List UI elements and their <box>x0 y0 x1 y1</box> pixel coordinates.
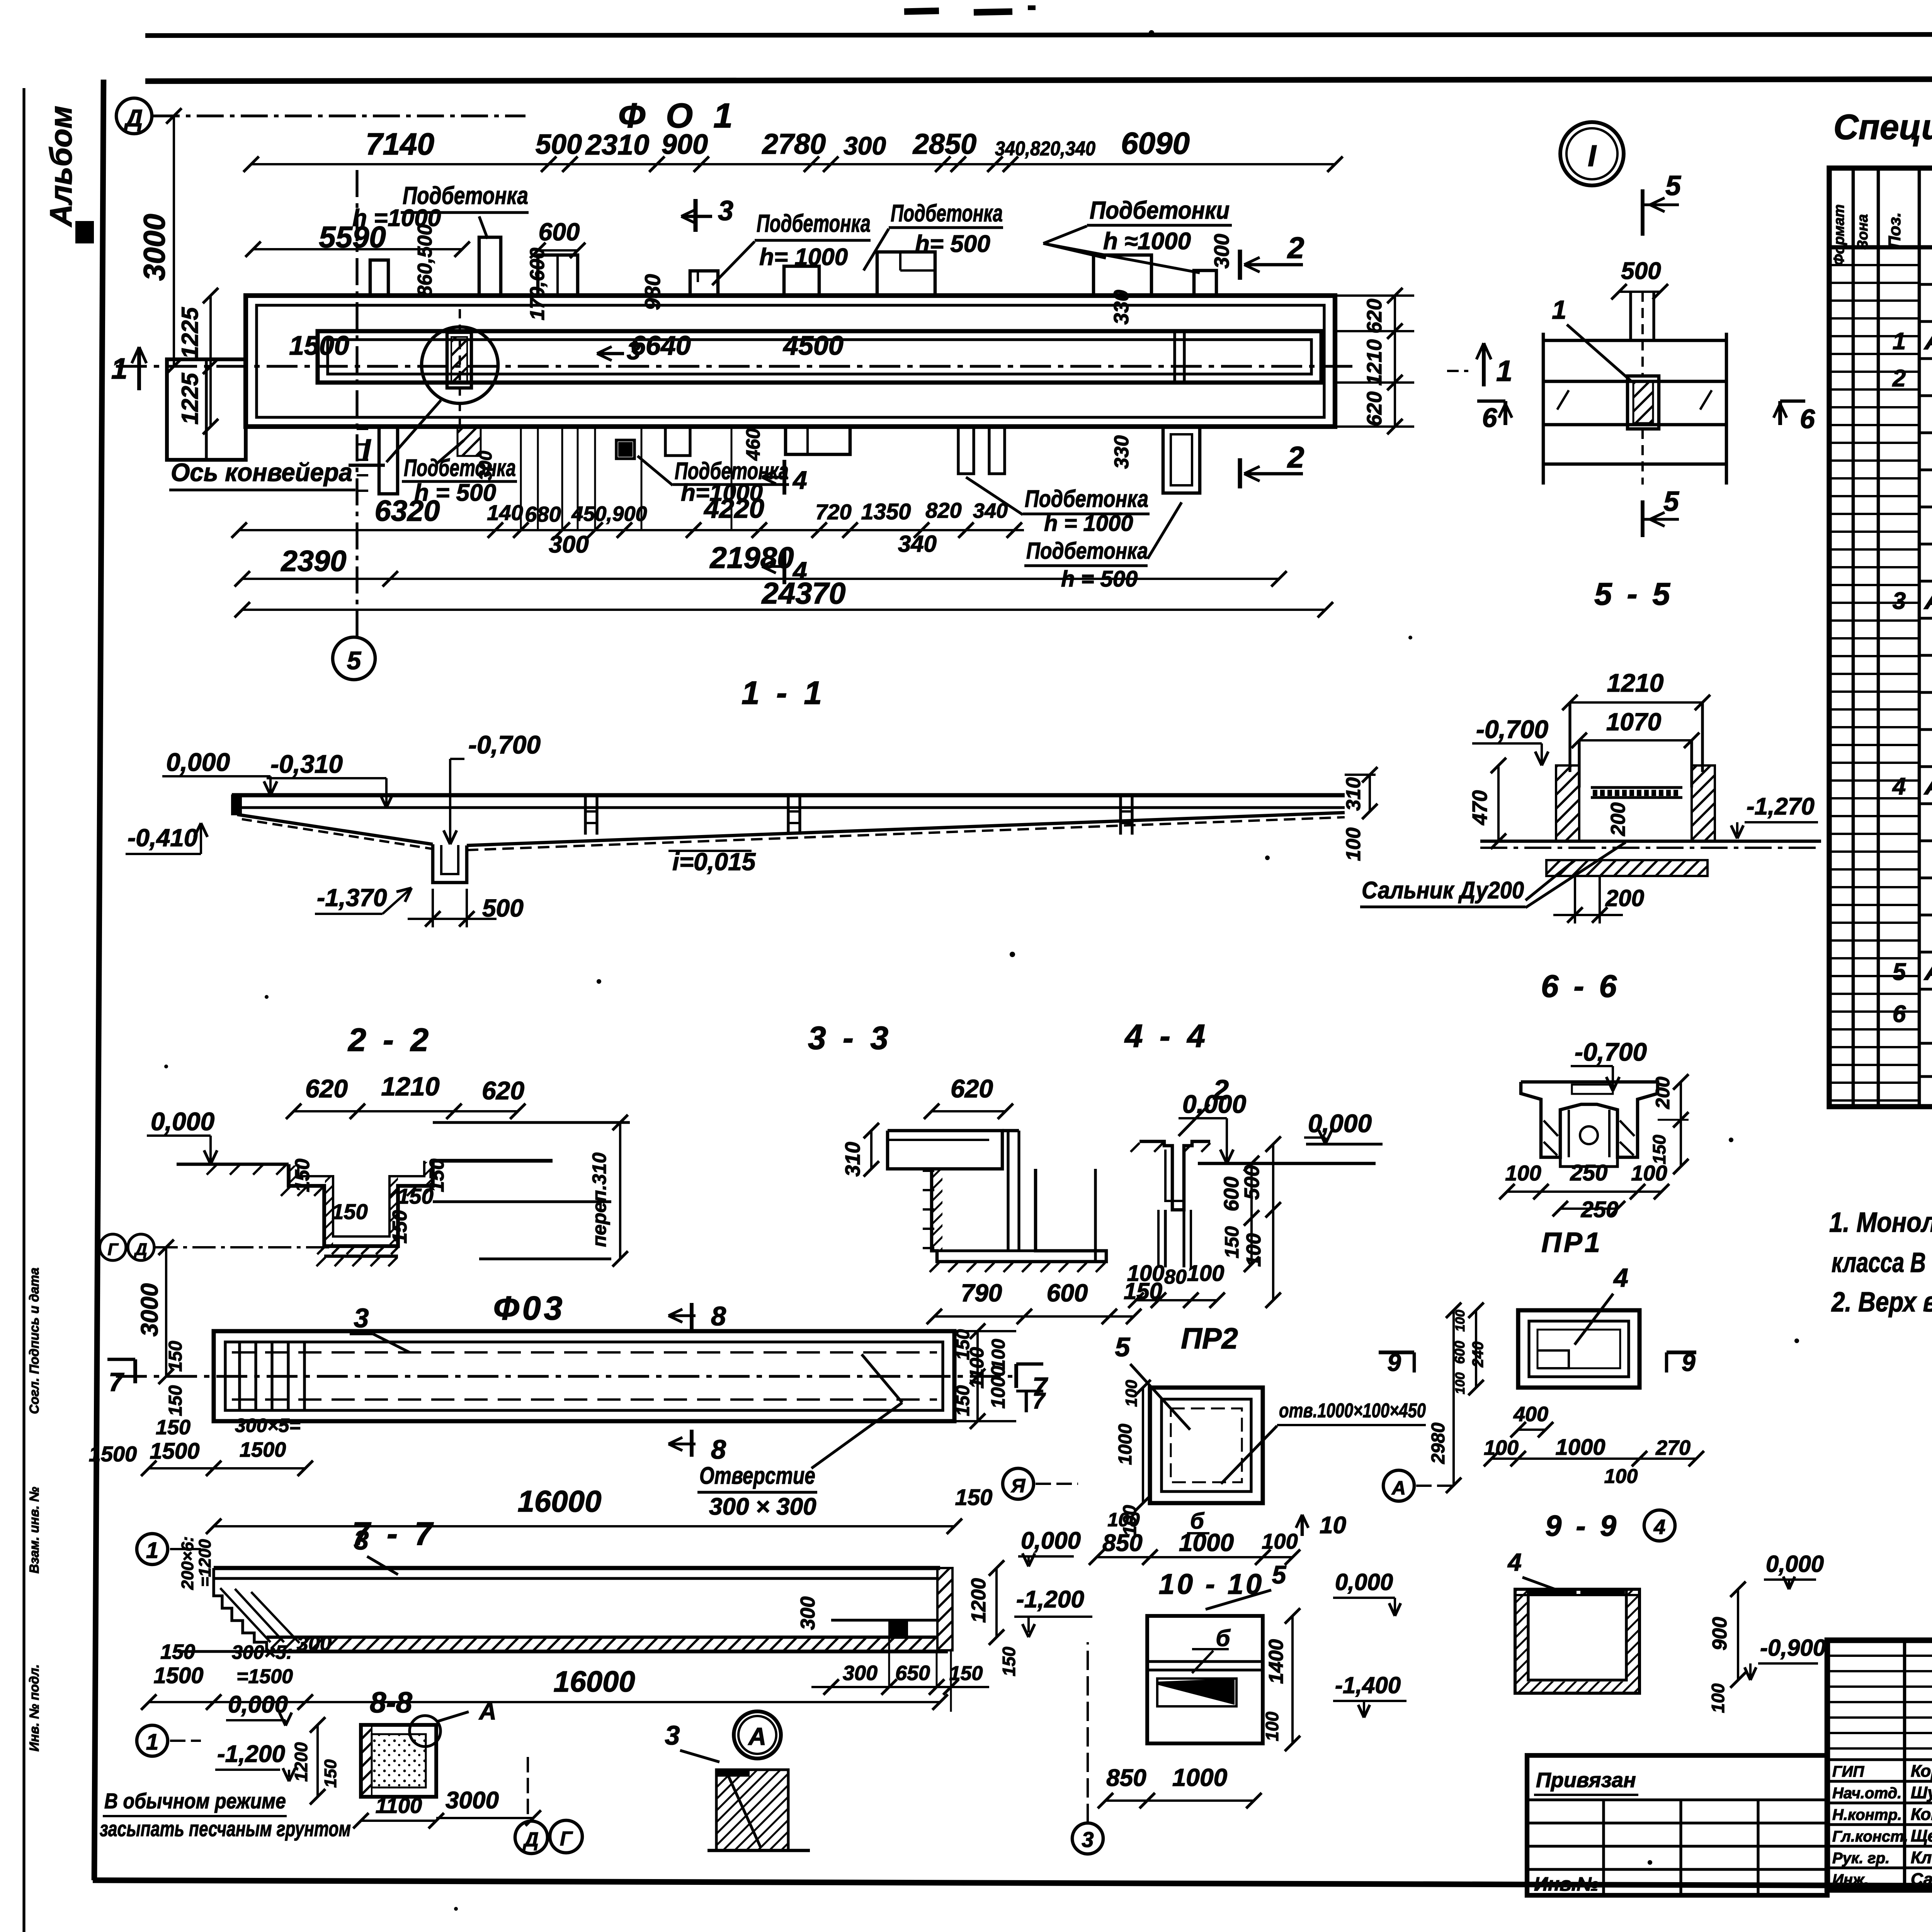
svg-text:150: 150 <box>165 1341 186 1372</box>
5-5 side verticals <box>1542 333 1545 485</box>
spec table header bottom line <box>1829 245 1932 250</box>
svg-text:150: 150 <box>955 1485 993 1510</box>
svg-text:Поз.: Поз. <box>1885 212 1904 248</box>
svg-text:850: 850 <box>1106 1765 1146 1791</box>
6-6 dim 1070 <box>1579 739 1692 742</box>
svg-text:6090: 6090 <box>1121 126 1190 160</box>
svg-text:5: 5 <box>1115 1332 1131 1362</box>
spec table narrow column grid <box>1829 264 1919 266</box>
leader LG2 <box>638 456 673 485</box>
leader LG3 <box>966 477 1023 515</box>
leader L1 <box>712 241 755 285</box>
PR1 section top slab <box>1521 1082 1658 1157</box>
svg-text:засыпать песчаным грунтом: засыпать песчаным грунтом <box>100 1816 351 1841</box>
10-10 bottom dims <box>1105 1799 1254 1802</box>
title block outer box <box>1827 1640 1932 1890</box>
axis G D circles <box>100 1234 126 1260</box>
leader L1b <box>864 229 889 270</box>
vdim right s22 <box>619 1122 621 1259</box>
section 4 marker upper <box>782 460 786 495</box>
svg-text:1 - 1: 1 - 1 <box>742 675 826 711</box>
section 2-2 ground left <box>177 1163 289 1166</box>
svg-text:Альбом: Альбом <box>44 106 78 228</box>
svg-text:7: 7 <box>1032 1388 1046 1413</box>
svg-text:980: 980 <box>640 274 665 310</box>
svg-text:150: 150 <box>389 1210 411 1244</box>
PR1 circle salnik <box>1580 1126 1598 1144</box>
svg-text:h= 500: h= 500 <box>915 231 990 257</box>
plan slot inner <box>328 340 1311 374</box>
PR2 square inner <box>1162 1399 1251 1492</box>
below-band H1 H2 <box>958 427 974 474</box>
FO3 center axis <box>116 1375 1012 1378</box>
5-5 dashed axis segments <box>1641 292 1644 376</box>
leader LG1 <box>437 440 464 464</box>
svg-text:Сапожкова: Сапожкова <box>1911 1870 1932 1889</box>
section 3 marker in slot <box>597 347 612 354</box>
svg-text:-0,700: -0,700 <box>1575 1037 1647 1066</box>
leader L2 <box>1043 226 1087 243</box>
svg-text:Кличев: Кличев <box>1911 1848 1932 1867</box>
svg-text:140: 140 <box>487 500 523 525</box>
svg-text:100: 100 <box>1342 828 1365 861</box>
svg-text:3: 3 <box>665 1720 680 1750</box>
left sheet edge line <box>22 88 25 1932</box>
6-6 bottom slab <box>1546 860 1708 876</box>
svg-text:1210: 1210 <box>1607 668 1664 697</box>
PR1 inner lid <box>1572 1085 1613 1094</box>
10-10 dark wedge <box>1157 1679 1235 1705</box>
svg-text:1070: 1070 <box>1606 708 1661 736</box>
svg-text:-1,370: -1,370 <box>317 884 387 912</box>
svg-text:620: 620 <box>1363 299 1386 333</box>
svg-text:500: 500 <box>1240 1165 1264 1200</box>
svg-text:3: 3 <box>718 196 733 226</box>
svg-text:Привязан: Привязан <box>1536 1769 1636 1792</box>
detail A hatched square <box>716 1770 788 1850</box>
FO3 section 8 marker bottom <box>690 1430 694 1457</box>
svg-text:-0,410: -0,410 <box>128 824 197 852</box>
dim 5590 line <box>253 248 462 250</box>
svg-text:А: А <box>478 1698 497 1725</box>
5-5 6 marker left <box>1477 400 1505 403</box>
svg-text:Подбетонка: Подбетонка <box>1025 486 1148 512</box>
6-6 dim 1210 <box>1570 701 1702 704</box>
svg-text:340: 340 <box>898 531 937 557</box>
svg-text:Альбом Ш КЖ.И.008: Альбом Ш КЖ.И.008 <box>1923 959 1932 985</box>
right side vdim <box>1394 296 1396 427</box>
svg-text:6: 6 <box>1893 1001 1906 1027</box>
PR1 plan inner <box>1529 1321 1629 1377</box>
svg-text:б: б <box>1190 1509 1205 1534</box>
5-5 marker bottom <box>1641 500 1645 537</box>
svg-text:4: 4 <box>1507 1548 1522 1576</box>
svg-text:1200: 1200 <box>968 1578 990 1623</box>
svg-text:680: 680 <box>525 502 561 526</box>
svg-text:Подбетонка: Подбетонка <box>1026 538 1148 564</box>
below-band strip G1 <box>379 427 398 494</box>
section 7-7 16000 dim <box>149 1701 940 1703</box>
svg-text:-0,700: -0,700 <box>1476 715 1548 743</box>
svg-text:3 - 3: 3 - 3 <box>808 1020 892 1056</box>
svg-text:620: 620 <box>951 1074 993 1103</box>
svg-text:Формат: Формат <box>1831 204 1847 266</box>
svg-text:100: 100 <box>1453 1310 1468 1332</box>
svg-text:1000: 1000 <box>1115 1423 1136 1465</box>
podbetonka strip A1 <box>370 260 388 296</box>
below-band G4 <box>665 427 690 456</box>
svg-text:900: 900 <box>662 129 708 160</box>
svg-text:1210: 1210 <box>381 1072 439 1101</box>
svg-text:150: 150 <box>291 1159 314 1192</box>
svg-text:100: 100 <box>1708 1683 1728 1713</box>
5-5 central hatched element <box>1628 376 1659 429</box>
svg-text:Альбом Ш КЖ.И.007: Альбом Ш КЖ.И.007 <box>1923 773 1932 800</box>
scan specks <box>1149 30 1154 36</box>
section 1-1 footing pit <box>433 844 467 883</box>
section 3-3 body <box>888 1131 1002 1169</box>
PR1 bottom dims <box>1507 1190 1662 1193</box>
FO3 inner dashed lines <box>232 1351 937 1354</box>
svg-text:Инв. № подл.: Инв. № подл. <box>27 1664 42 1752</box>
svg-text:ГИП: ГИП <box>1832 1763 1864 1780</box>
PR1 plan outer <box>1518 1310 1639 1388</box>
dim 500 s11 <box>432 889 434 927</box>
section 4-4 body <box>1139 1141 1210 1210</box>
svg-text:400: 400 <box>1513 1403 1548 1426</box>
podbetonka A4 <box>690 271 718 296</box>
svg-text:ПР2: ПР2 <box>1181 1322 1238 1355</box>
svg-text:2: 2 <box>1287 231 1304 265</box>
svg-text:Д: Д <box>124 105 143 132</box>
svg-text:4: 4 <box>1892 773 1906 800</box>
axis D line <box>153 114 526 117</box>
svg-text:-1,270: -1,270 <box>1747 793 1815 820</box>
svg-text:500: 500 <box>482 894 524 922</box>
svg-text:Подбетонка: Подбетонка <box>891 200 1003 227</box>
svg-text:1: 1 <box>1552 295 1566 325</box>
svg-text:100: 100 <box>1262 1711 1282 1741</box>
svg-text:-1,200: -1,200 <box>217 1741 285 1767</box>
svg-text:2: 2 <box>1892 365 1906 392</box>
5-5 band lines <box>1543 339 1726 342</box>
podbetonka A7 right <box>1094 255 1151 296</box>
svg-text:860,500: 860,500 <box>414 224 436 297</box>
PR2 otv leader <box>1221 1426 1277 1484</box>
svg-text:900: 900 <box>1709 1617 1731 1651</box>
svg-text:h =1000: h =1000 <box>352 205 441 231</box>
FO3 16000 dim <box>214 1525 954 1527</box>
svg-text:-0,700: -0,700 <box>468 730 541 759</box>
FO3 left vdim 3000 <box>165 1247 167 1376</box>
svg-text:100: 100 <box>1484 1436 1519 1459</box>
svg-text:Подбетонка: Подбетонка <box>404 455 516 481</box>
svg-text:1500: 1500 <box>150 1439 199 1464</box>
section 7-7 dark square <box>888 1621 908 1637</box>
svg-text:620: 620 <box>482 1076 524 1105</box>
right side extension lines <box>1335 294 1414 297</box>
svg-text:100: 100 <box>1262 1529 1298 1553</box>
svg-text:330: 330 <box>1111 435 1133 469</box>
svg-text:8: 8 <box>711 1301 726 1331</box>
svg-text:1: 1 <box>111 352 128 385</box>
svg-text:ПР1: ПР1 <box>1541 1227 1602 1258</box>
6-6 perforated band <box>1591 786 1682 789</box>
svg-text:4 - 4: 4 - 4 <box>1124 1018 1209 1054</box>
plan bottom dim line 1 <box>239 529 1024 531</box>
svg-text:В обычном режиме: В обычном режиме <box>104 1789 286 1813</box>
section 4-4 right vdim <box>1272 1144 1274 1300</box>
axis circle 4 <box>1644 1510 1675 1541</box>
svg-text:=1200: =1200 <box>196 1539 214 1587</box>
svg-text:4: 4 <box>1613 1263 1628 1293</box>
svg-text:3: 3 <box>1082 1827 1094 1852</box>
FO3 outer rect <box>214 1331 954 1421</box>
section 3-3 ground right <box>1198 1162 1376 1165</box>
svg-text:h ≈1000: h ≈1000 <box>1103 228 1191 255</box>
svg-text:0,000: 0,000 <box>1308 1109 1372 1138</box>
section 7-7 step line 300 <box>831 1619 937 1621</box>
vdim 1225 1225 line <box>209 296 212 427</box>
svg-text:Подбетонки: Подбетонки <box>1090 196 1230 224</box>
6-6 top verticals <box>1568 702 1571 772</box>
FO3 inner rect <box>225 1342 943 1410</box>
section 1-1 top slab <box>232 793 1345 798</box>
section 2 marker bottom <box>1238 458 1242 488</box>
svg-text:Нач.отд.: Нач.отд. <box>1832 1785 1901 1802</box>
below-band hatched G2 <box>457 427 481 456</box>
section 2-2 right platform <box>433 1200 611 1203</box>
svg-text:Гл.конст.: Гл.конст. <box>1832 1828 1908 1845</box>
svg-text:1: 1 <box>146 1538 158 1563</box>
svg-text:1200: 1200 <box>291 1742 311 1782</box>
section 7-7 top lines <box>214 1566 940 1570</box>
section 2-2 dims top <box>294 1110 518 1112</box>
svg-text:150: 150 <box>160 1640 195 1663</box>
svg-text:2780: 2780 <box>762 128 826 160</box>
svg-text:16000: 16000 <box>518 1484 602 1518</box>
svg-text:5: 5 <box>1663 486 1679 517</box>
svg-text:3: 3 <box>354 1525 369 1555</box>
section 3 marker top <box>694 199 698 232</box>
svg-text:А: А <box>1391 1477 1406 1499</box>
detail I dashed axis <box>459 309 461 427</box>
podbetonka A6 <box>877 252 935 296</box>
6-6 salnik leaders <box>1526 860 1575 900</box>
svg-text:h = 1000: h = 1000 <box>1044 511 1133 536</box>
svg-text:100: 100 <box>1107 1509 1140 1531</box>
axis circle 3 left <box>1072 1823 1103 1854</box>
svg-text:2. Верх всех подбетонок для: 2. Верх всех подбетонок для ФО1 выполнит… <box>1831 1287 1932 1318</box>
section 4-4 hatch <box>1131 1143 1139 1152</box>
axis circle 1 lower <box>137 1725 168 1756</box>
section 2-2 channel profile <box>289 1161 553 1246</box>
privyazan grid <box>1527 1798 1827 1801</box>
svg-text:1210: 1210 <box>1363 339 1386 386</box>
plan bottom dim line 2 <box>242 578 1279 580</box>
PR1 plan 400 dim <box>1518 1429 1546 1431</box>
9-9 inner <box>1528 1589 1626 1680</box>
svg-text:600: 600 <box>539 218 580 246</box>
5-5 pipe up <box>1629 292 1632 339</box>
svg-text:300×5=: 300×5= <box>235 1415 301 1436</box>
vdim 3000 line <box>173 116 175 366</box>
svg-text:1: 1 <box>146 1730 158 1755</box>
svg-text:-0,310: -0,310 <box>270 750 343 778</box>
FO3 section 8 marker top <box>690 1303 694 1329</box>
detail circle marker on 8-8 <box>410 1716 440 1747</box>
axis D circle <box>116 98 152 134</box>
svg-text:-0,900: -0,900 <box>1760 1635 1826 1661</box>
axis circle 1 upper <box>137 1534 168 1565</box>
svg-text:Отверстие: Отверстие <box>699 1463 815 1489</box>
PR1 wall hatch <box>1544 1121 1558 1136</box>
svg-text:310: 310 <box>841 1142 864 1177</box>
FO3 7 marker left <box>107 1358 135 1361</box>
svg-text:переп.310: переп.310 <box>588 1153 610 1247</box>
svg-text:500: 500 <box>1621 258 1661 284</box>
svg-text:=1500: =1500 <box>236 1665 293 1688</box>
PR2 inner dashed <box>1171 1408 1242 1482</box>
svg-text:7: 7 <box>109 1367 124 1397</box>
svg-text:9 - 9: 9 - 9 <box>1545 1510 1619 1543</box>
below-band H3 <box>1163 427 1200 493</box>
svg-text:1225: 1225 <box>177 372 203 425</box>
section 7-7 wedge hatch <box>220 1588 270 1642</box>
svg-text:1100: 1100 <box>376 1793 422 1818</box>
svg-text:16000: 16000 <box>553 1665 635 1698</box>
section 7-7 bottom slab <box>267 1636 937 1639</box>
svg-text:1500: 1500 <box>153 1663 203 1688</box>
plan outer rect <box>246 296 1335 427</box>
plan slot outer <box>318 331 1321 383</box>
svg-text:3000: 3000 <box>137 214 171 281</box>
svg-text:2: 2 <box>1287 440 1304 474</box>
plan bottom dim line 3 <box>242 609 1325 611</box>
section 1 marker right <box>1482 343 1486 386</box>
svg-text:9: 9 <box>1387 1349 1401 1376</box>
svg-text:200: 200 <box>1652 1077 1673 1109</box>
svg-text:720: 720 <box>815 500 851 524</box>
section 2-2 floor slab <box>324 1255 398 1258</box>
svg-text:1000: 1000 <box>1555 1435 1605 1460</box>
svg-text:3: 3 <box>627 337 641 365</box>
detail 8-8 box <box>361 1725 436 1797</box>
svg-text:7140: 7140 <box>366 127 434 161</box>
svg-text:150: 150 <box>953 1385 973 1416</box>
svg-text:9: 9 <box>1682 1349 1696 1376</box>
svg-text:h= 1000: h= 1000 <box>759 244 848 270</box>
spec table column lines <box>1852 168 1855 1107</box>
svg-text:4: 4 <box>1653 1515 1665 1539</box>
PR1 9 marker right <box>1667 1350 1696 1354</box>
svg-text:150: 150 <box>949 1662 983 1685</box>
svg-text:2: 2 <box>1213 1075 1229 1105</box>
svg-text:300×5:: 300×5: <box>232 1641 293 1663</box>
svg-text:80: 80 <box>1164 1266 1187 1288</box>
svg-text:600: 600 <box>1047 1279 1088 1307</box>
5-5 6 marker right <box>1780 400 1805 403</box>
svg-text:340,820,340: 340,820,340 <box>995 138 1095 160</box>
svg-text:300: 300 <box>549 531 588 558</box>
PR1 9 marker left <box>1379 1350 1414 1354</box>
svg-text:24370: 24370 <box>761 576 846 610</box>
svg-text:150: 150 <box>1221 1226 1243 1259</box>
svg-text:620: 620 <box>1363 391 1386 426</box>
dim 3000 d88 <box>436 1817 533 1819</box>
svg-text:-1,400: -1,400 <box>1335 1672 1401 1698</box>
PR2 10 marker <box>1301 1515 1304 1536</box>
svg-text:0,000: 0,000 <box>1021 1527 1081 1554</box>
svg-text:10 - 10: 10 - 10 <box>1159 1568 1264 1600</box>
svg-text:Взам. инв. №: Взам. инв. № <box>27 1487 42 1574</box>
10-10 inner rect lower <box>1157 1679 1236 1706</box>
6-6 walls <box>1556 765 1579 841</box>
privyazan table box <box>1527 1755 1827 1895</box>
detail I circle standalone <box>1560 122 1624 185</box>
svg-text:класса В 7,5 по размерам ж: класса В 7,5 по размерам железобетонных … <box>1832 1247 1932 1278</box>
svg-text:А: А <box>748 1723 766 1750</box>
spec table row lines <box>1919 283 1932 286</box>
PR1 plan partition <box>1537 1350 1569 1368</box>
svg-text:5: 5 <box>1893 959 1906 985</box>
svg-text:Подбетонка: Подбетонка <box>757 209 871 237</box>
frame top lower line <box>145 78 1932 81</box>
PR1 plan dashed inner <box>1537 1330 1620 1368</box>
top edge scan dashes <box>904 11 939 12</box>
svg-text:Согл. Подпись и дата: Согл. Подпись и дата <box>27 1267 42 1414</box>
svg-text:Альбом Ш КЖ.И.008: Альбом Ш КЖ.И.008 <box>1923 588 1932 614</box>
svg-text:850: 850 <box>1102 1530 1142 1556</box>
svg-text:150: 150 <box>165 1385 186 1416</box>
section 1-1 left slope <box>237 815 433 844</box>
5-5 dim 500 <box>1619 291 1660 293</box>
svg-text:6: 6 <box>1800 404 1815 434</box>
svg-text:Альбом Ш КЖ.И.002: Альбом Ш КЖ.И.002 <box>1923 328 1932 355</box>
svg-text:3: 3 <box>354 1303 369 1333</box>
svg-text:5: 5 <box>1272 1560 1287 1589</box>
svg-text:1: 1 <box>1496 355 1512 388</box>
podbetonka strip A2 <box>479 237 501 296</box>
svg-text:Я: Я <box>1010 1475 1026 1497</box>
svg-text:150: 150 <box>397 1184 433 1208</box>
FO3 otverstie leader <box>862 1354 902 1403</box>
podbetonka A8 small right <box>1194 270 1216 296</box>
svg-text:Ф03: Ф03 <box>493 1290 566 1327</box>
svg-text:200×6:: 200×6: <box>178 1536 197 1590</box>
9-9 wall hatch <box>1517 1591 1528 1692</box>
PR2 bottom dims <box>1097 1556 1293 1558</box>
svg-text:5: 5 <box>347 646 362 675</box>
svg-text:300 × 300: 300 × 300 <box>709 1493 816 1520</box>
svg-text:0,000: 0,000 <box>1335 1569 1393 1595</box>
svg-text:4220: 4220 <box>703 493 764 524</box>
svg-text:6320: 6320 <box>374 495 440 527</box>
svg-text:340: 340 <box>973 499 1008 522</box>
svg-text:4: 4 <box>792 466 807 494</box>
PR1 trough <box>1560 1157 1617 1167</box>
svg-text:0,000: 0,000 <box>151 1107 214 1136</box>
section 2-2 hatch <box>281 1187 290 1196</box>
svg-text:21980: 21980 <box>709 541 794 575</box>
svg-text:150: 150 <box>321 1759 340 1788</box>
detail A circle <box>734 1711 781 1759</box>
svg-text:Кокорев: Кокорев <box>1911 1805 1932 1824</box>
below-band G5 wide <box>786 427 850 454</box>
svg-text:Рук. гр.: Рук. гр. <box>1832 1850 1889 1867</box>
svg-text:1. Монолитные участки канало: 1. Монолитные участки каналов выполнить … <box>1829 1207 1932 1238</box>
axis line 3 <box>1087 1642 1089 1823</box>
